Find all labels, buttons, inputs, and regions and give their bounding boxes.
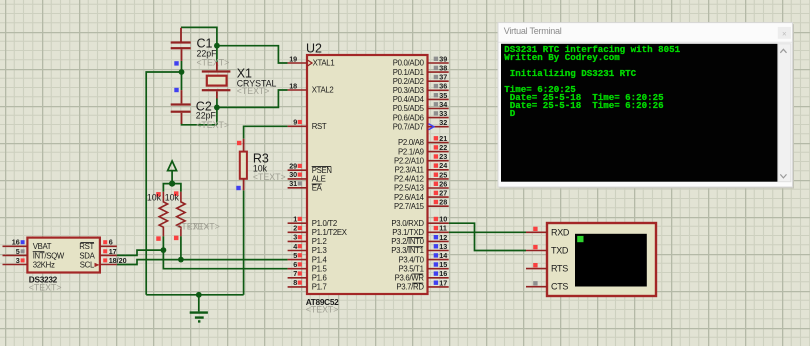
U2 pin 23 (P2.2/A10) [394,152,449,165]
svg-text:16: 16 [12,238,20,247]
svg-text:P1.7: P1.7 [312,283,327,292]
svg-text:6: 6 [109,238,113,247]
U2 pin 16 (P3.6/WR) [395,269,449,282]
svg-text:P0.7/AD7: P0.7/AD7 [393,122,424,131]
svg-text:3: 3 [293,233,297,242]
svg-text:10k: 10k [165,193,180,203]
U2 pin 32 (P0.7/AD7) [393,118,449,131]
wire: R3 bottom to ground rail [243,190,245,294]
svg-text:P3.5/T1: P3.5/T1 [398,264,423,273]
terminal pin TXD [526,245,569,256]
RTC DS3232 [27,238,100,273]
svg-text:P0.1/AD1: P0.1/AD1 [393,68,424,77]
svg-text:16: 16 [439,269,447,278]
svg-text:10: 10 [439,215,447,224]
svg-text:7: 7 [293,269,297,278]
U2 pin 6 (P1.5) [288,260,328,273]
U2 pin 19 (XTAL1) [288,54,335,67]
virtual terminal component [547,223,656,296]
wire: right resistor bottom to SCL net [180,236,182,259]
junction: ground node [196,292,202,298]
capacitor C2 [171,88,191,124]
svg-text:<TEXT>: <TEXT> [187,221,220,231]
svg-text:32KHz: 32KHz [33,260,55,269]
svg-text:14: 14 [439,251,447,260]
terminal pin RXD [526,227,570,238]
svg-text:27: 27 [439,189,447,198]
svg-text:<TEXT>: <TEXT> [306,304,339,314]
DS3232 pin 3 32KHz [3,256,56,270]
svg-text:EA: EA [312,184,323,193]
svg-text:P3.7/RD: P3.7/RD [396,283,424,292]
svg-text:29: 29 [289,162,297,171]
wire: SCL net DS3232 to U2 pin 5 P1.4 [117,260,288,265]
svg-text:P3.6/WR: P3.6/WR [395,274,425,283]
svg-text:PSEN: PSEN [312,166,332,175]
wire: X1 bottom to crystal-bottom node [182,99,217,125]
U2 pin 3 (P1.2) [288,233,327,246]
svg-text:INT/SQW: INT/SQW [33,251,65,260]
U2 pin 33 (P0.6/AD6) [393,109,449,122]
U2 pin 21 (P2.0/A8) [398,134,449,147]
svg-text:P0.4/AD4: P0.4/AD4 [393,95,425,104]
U2 pin 10 (P3.0/RXD) [391,215,448,228]
svg-text:<TEXT>: <TEXT> [196,120,229,130]
terminal cursor block [577,236,583,242]
DS3232 pin 6 RST [79,238,117,252]
U2 pin 39 (P0.0/AD0) [393,54,449,67]
U2 pin 18 (XTAL2) [288,81,334,94]
svg-text:P1.2: P1.2 [312,237,327,246]
wire: crystal-top node down to X1 top [216,46,218,62]
U2 pin 38 (P0.1/AD1) [393,64,449,77]
svg-text:5: 5 [293,251,297,260]
ground [190,295,208,322]
svg-text:P3.0/RXD: P3.0/RXD [391,219,424,228]
svg-text:25: 25 [439,170,447,179]
svg-text:22: 22 [439,143,447,152]
svg-text:RXD: RXD [551,227,570,237]
U2 pin 2 (P1.1/T2EX) [288,224,348,237]
svg-text:37: 37 [439,73,447,82]
DS3232 pin 5 INT/SQW [3,247,65,260]
U2 pin 22 (P2.1/A9) [398,143,449,156]
svg-text:23: 23 [439,152,447,161]
svg-text:<TEXT>: <TEXT> [253,172,286,182]
U2 pin 8 (P1.7) [288,278,327,291]
svg-text:17: 17 [109,247,117,256]
svg-text:5: 5 [16,247,20,256]
resistor R3 [236,139,247,191]
U2 pin 5 (P1.4) [288,251,328,264]
svg-text:P1.0/T2: P1.0/T2 [312,219,337,228]
U2 pin 36 (P0.3/AD3) [393,82,449,95]
U2 pin 31 (EA) [288,179,323,192]
U2 pin 27 (P2.6/A14) [394,189,449,202]
DS3232 pin 16 VBAT [3,238,52,252]
U2 pin 35 (P0.4/AD4) [393,91,449,104]
svg-text:3: 3 [16,256,20,265]
svg-text:P2.0/A8: P2.0/A8 [398,138,424,147]
svg-text:32: 32 [439,118,447,127]
svg-text:1: 1 [293,215,297,224]
terminal pin CTS [526,281,568,292]
junction: SCL node [178,257,184,263]
U2 pin 12 (P3.2/INT0) [391,233,448,246]
svg-text:21: 21 [439,134,447,143]
svg-text:34: 34 [439,100,447,109]
svg-text:Initializing DS3231 RTC: Initializing DS3231 RTC [504,68,636,79]
wire: XTAL2 net from node to U2 pin 18 [217,90,288,107]
U2 pin 15 (P3.5/T1) [398,260,448,273]
svg-text:P1.1/T2EX: P1.1/T2EX [312,228,348,237]
svg-text:13: 13 [439,242,447,251]
U2 pin 4 (P1.3) [288,242,327,255]
svg-text:39: 39 [439,54,447,63]
svg-text:Virtual Terminal: Virtual Terminal [504,26,562,36]
svg-text:P1.5: P1.5 [312,264,328,273]
crystal X1 [202,62,231,99]
wire: SDA net DS3232 to node [117,250,163,255]
U2 pin 24 (P2.3/A11) [395,161,449,174]
svg-text:38: 38 [439,64,447,73]
U2 pin 1 (P1.0/T2) [288,215,337,228]
svg-text:26: 26 [439,179,447,188]
virtual terminal window [498,23,794,189]
svg-text:P3.2/INT0: P3.2/INT0 [391,237,424,246]
svg-text:31: 31 [289,179,297,188]
svg-text:<TEXT>: <TEXT> [197,57,230,67]
svg-text:RST: RST [79,242,94,251]
svg-text:10k: 10k [147,193,162,203]
svg-text:8: 8 [293,278,297,287]
svg-text:XTAL1: XTAL1 [313,59,335,68]
svg-text:SDA: SDA [79,251,95,260]
wire: SDA node to U2 pin 6 P1.5 [163,250,287,269]
svg-text:4: 4 [293,242,297,251]
svg-text:18: 18 [289,81,297,90]
resistor R2 10k (SCL pull-up) [174,191,185,240]
IC U2 AT89C52 [307,55,428,294]
svg-text:19: 19 [289,54,297,63]
wire: C1/C2 midpoint link [181,61,183,90]
svg-text:RTS: RTS [551,264,568,274]
U2 pin 7 (P1.6) [288,269,327,282]
DS3232 pin 18/20 SCL [80,256,127,270]
U2 pin 28 (P2.7/A15) [394,198,449,211]
svg-text:P0.6/AD6: P0.6/AD6 [393,113,424,122]
junction: crystal-bottom node [214,105,220,111]
svg-text:U2: U2 [306,41,322,55]
svg-text:P3.3/INT1: P3.3/INT1 [391,246,423,255]
junction: SDA node [161,247,167,253]
svg-text:P1.3: P1.3 [312,246,327,255]
wire: C1 top bracket to crystal-top node [181,27,217,45]
U2 pin 13 (P3.3/INT1) [391,242,448,255]
svg-text:P2.4/A12: P2.4/A12 [394,175,424,184]
svg-text:P0.3/AD3: P0.3/AD3 [393,86,424,95]
svg-text:VBAT: VBAT [33,242,52,251]
capacitor C1 [171,28,191,66]
svg-text:33: 33 [439,109,447,118]
svg-text:P3.4/T0: P3.4/T0 [398,255,424,264]
console screen [501,44,778,182]
U2 pin 14 (P3.4/T0) [398,251,448,264]
svg-text:17: 17 [439,278,447,287]
U2 pin 30 (ALE) [288,170,326,183]
svg-text:<TEXT>: <TEXT> [29,282,62,292]
svg-text:9: 9 [293,118,297,127]
svg-text:P1.6: P1.6 [312,274,327,283]
svg-text:P2.6/A14: P2.6/A14 [394,193,425,202]
svg-text:18/20: 18/20 [109,256,127,265]
svg-text:CTS: CTS [551,282,568,292]
wire: pull-up bracket to resistors [163,184,181,192]
U2 pin 29 (PSEN) [288,162,332,175]
resistor R1 10k (SDA pull-up) [156,192,167,241]
svg-text:35: 35 [439,91,447,100]
wire: left resistor bottom to SDA node [162,236,164,250]
svg-text:28: 28 [439,198,447,207]
svg-text:Written By Codrey.com: Written By Codrey.com [504,52,620,63]
U2 pin 25 (P2.4/A12) [394,170,449,183]
svg-text:P2.7/A15: P2.7/A15 [394,202,425,211]
U2 pin 37 (P0.2/AD2) [393,73,449,86]
svg-text:P2.2/A10: P2.2/A10 [394,156,425,165]
svg-text:P3.1/TXD: P3.1/TXD [392,228,424,237]
console text [504,44,680,119]
svg-text:30: 30 [289,170,297,179]
svg-text:24: 24 [439,161,447,170]
svg-text:12: 12 [439,233,447,242]
junction: crystal-top node [214,43,220,49]
power symbol (pull-up supply arrow) [168,161,177,187]
U2 pin 11 (P3.1/TXD) [392,224,448,237]
svg-text:Date= 25-5-18 Time= 6:20:26: Date= 25-5-18 Time= 6:20:26 [504,100,663,111]
svg-text:P0.0/AD0: P0.0/AD0 [393,59,425,68]
svg-text:P2.3/A11: P2.3/A11 [395,166,424,175]
svg-text:RST: RST [312,122,327,131]
window close button [778,27,791,39]
svg-text:XTAL2: XTAL2 [312,86,334,95]
wire: U2 P3.0/RXD pin 10 to terminal TXD [449,223,526,250]
junction: C1/C2 midpoint node [179,69,185,75]
svg-text:36: 36 [439,82,447,91]
svg-text:TXD: TXD [551,246,569,256]
U2 pin 26 (P2.5/A13) [394,179,449,192]
wire: ground rail [146,294,243,296]
wire: XTAL1 net from node to U2 pin 19 [217,46,288,63]
U2 pin 9 (RST) [288,118,327,131]
svg-text:P2.5/A13: P2.5/A13 [394,184,424,193]
svg-text:6: 6 [293,260,297,269]
wire: RST net R3 top to U2 pin 9 [244,126,288,139]
U2 pin 34 (P0.5/AD5) [393,100,449,113]
svg-text:D: D [504,108,515,119]
svg-text:2: 2 [293,224,297,233]
svg-text:P2.1/A9: P2.1/A9 [398,147,424,156]
svg-text:SCL: SCL [80,260,95,269]
svg-text:15: 15 [439,260,447,269]
svg-text:P0.5/AD5: P0.5/AD5 [393,104,425,113]
scrollbar [778,44,791,182]
terminal pin RTS [526,263,568,274]
svg-text:P1.4: P1.4 [312,255,328,264]
svg-text:ALE: ALE [312,175,326,184]
wire: U2 P3.1/TXD pin 11 to terminal RXD [449,231,526,233]
svg-text:<TEXT>: <TEXT> [237,86,270,96]
DS3232 pin 17 SDA [79,247,117,260]
svg-text:P0.2/AD2: P0.2/AD2 [393,77,424,86]
wire: midpoint node to ground rail (left vertical rail) [146,72,181,295]
svg-text:11: 11 [439,224,447,233]
U2 pin 17 (P3.7/RD) [396,278,448,291]
svg-text:×: × [782,29,787,38]
